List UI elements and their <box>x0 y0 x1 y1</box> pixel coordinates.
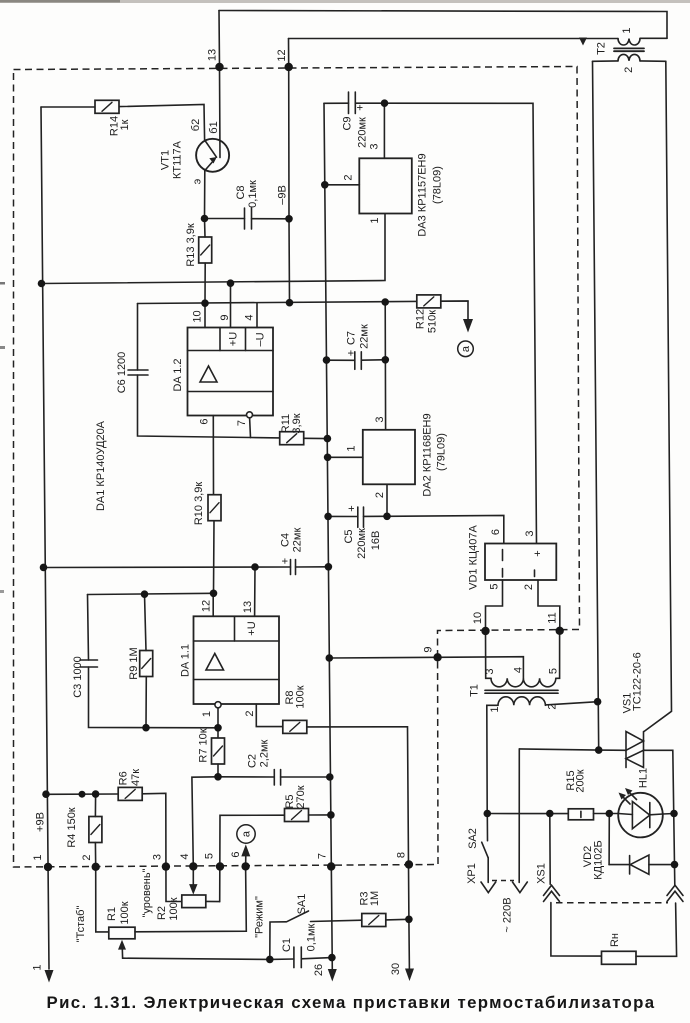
wire XS1 left contact riser <box>549 814 551 885</box>
common rail (long vertical) <box>324 103 332 957</box>
node C7 left <box>323 356 331 364</box>
wire C5 left lead <box>328 515 358 517</box>
svg-text:270к: 270к <box>295 785 307 808</box>
node R3 right <box>405 916 413 924</box>
node C7 right <box>382 356 390 364</box>
svg-text:9: 9 <box>423 646 435 652</box>
wire C3 bottom to DA1.1 pin1 bus <box>89 667 219 728</box>
node pin9 bus on common rail <box>326 654 334 662</box>
wire R8 right to pin 8 drop <box>307 727 409 920</box>
svg-text:DA3 КР1157ЕН9: DA3 КР1157ЕН9 <box>417 153 429 236</box>
svg-text:5: 5 <box>204 853 216 859</box>
svg-text:510к: 510к <box>427 310 439 333</box>
svg-text:+9В: +9В <box>35 812 47 832</box>
svg-text:КД102Б: КД102Б <box>593 840 605 879</box>
node pin 13 <box>215 63 223 71</box>
svg-text:+: + <box>346 505 358 511</box>
connector XP1 left pin <box>481 882 496 893</box>
LED HL1 circle <box>618 793 663 838</box>
potentiometer R1 body <box>109 927 135 939</box>
svg-text:R2: R2 <box>156 906 168 920</box>
node DA1.1 pin 12 / R10 <box>210 590 218 598</box>
svg-text:"уровень": "уровень" <box>141 868 153 917</box>
wire C6 bottom to R11 node <box>138 375 251 438</box>
capacitor C6 <box>128 369 148 371</box>
wire VD1 pin 2 to pin 11 <box>538 580 560 631</box>
svg-text:(79L09): (79L09) <box>436 433 448 471</box>
wire load loop right <box>636 903 677 956</box>
svg-text:R1: R1 <box>106 907 118 921</box>
wire T2 winding 2 left lead to mains rail <box>593 60 619 62</box>
wire R14 feed from left rail <box>41 106 95 108</box>
svg-text:"Режим": "Режим" <box>254 896 266 938</box>
svg-text:Рис. 1.31. Электрическая схема: Рис. 1.31. Электрическая схема приставки… <box>47 993 656 1012</box>
wire pin9 bus from common rail to T1 tap <box>329 657 523 679</box>
svg-text:100к: 100к <box>168 897 180 920</box>
op-amp DA1.2 body <box>188 328 274 416</box>
svg-text:3: 3 <box>369 143 381 149</box>
wire pin 11 to T1 winding end <box>556 631 560 679</box>
svg-text:1к: 1к <box>119 119 131 130</box>
svg-text:+U: +U <box>246 621 258 635</box>
svg-text:1: 1 <box>621 27 633 33</box>
svg-text:C4: C4 <box>280 533 292 547</box>
arrow to point a (top) <box>463 319 473 333</box>
svg-text:DA 1.1: DA 1.1 <box>180 644 192 677</box>
node C8 right on -9V rail <box>285 215 293 223</box>
wire R6 right to pin 3 drop <box>142 793 182 901</box>
svg-text:R4 150к: R4 150к <box>66 807 78 847</box>
svg-text:3: 3 <box>524 530 536 536</box>
wire R2 right lead riser to pin 5 <box>206 900 220 902</box>
node pin 8 <box>405 860 413 868</box>
node +9V bus left <box>38 280 46 288</box>
dashed enclosure border <box>14 67 580 868</box>
pin 1 exit arrow <box>45 970 54 983</box>
wire T2 winding 1 right lead <box>640 37 667 39</box>
right mains rail down to triac diagonal <box>644 61 672 731</box>
wire null/offset bus y302 <box>138 301 469 304</box>
wire DA2 pin 1 to common rail <box>327 456 362 458</box>
svg-text:1: 1 <box>346 445 358 451</box>
wire DA1.2 pin 10 <box>204 303 206 327</box>
connector XS1 left contact <box>544 885 560 895</box>
node pin 6 <box>241 862 249 870</box>
op-amp DA1.1 body <box>194 616 280 704</box>
node R9 bottom <box>142 724 150 732</box>
svg-text:R12: R12 <box>415 309 427 329</box>
svg-text:R13 3,9к: R13 3,9к <box>185 223 197 267</box>
svg-text:11: 11 <box>547 612 559 623</box>
node pin 10 <box>481 627 489 635</box>
svg-text:47к: 47к <box>130 769 142 786</box>
svg-text:2: 2 <box>374 492 386 498</box>
svg-text:+: + <box>532 550 544 556</box>
node DA3 pin 2 on common rail <box>321 181 329 189</box>
svg-text:2: 2 <box>81 854 93 860</box>
node R7 bottom / C2 <box>214 773 222 781</box>
wire pin 10 to T1 winding start <box>486 631 492 678</box>
wire DA1.1 pin 12 <box>212 593 214 616</box>
svg-text:22мк: 22мк <box>359 324 371 349</box>
wire VD1 pin 5 to pin 10 <box>486 580 503 631</box>
VD1 AC mark bottom <box>502 569 504 578</box>
node pin 7 <box>327 862 335 870</box>
svg-text:C5: C5 <box>343 529 355 543</box>
wire C6 top branch <box>137 304 139 371</box>
capacitor C3 <box>80 659 98 661</box>
svg-text:1: 1 <box>201 711 213 717</box>
wire DA3 pin 3 <box>383 103 385 158</box>
wire R4 bottom to R1 left <box>95 843 108 932</box>
node triac junction on mains rail <box>595 746 603 754</box>
wire lamp bus <box>487 813 568 815</box>
wire R7 top lead <box>217 728 219 744</box>
connector XS1 right contact <box>667 885 683 895</box>
svg-text:–U: –U <box>255 332 267 346</box>
resistor Rn (load) <box>602 951 637 964</box>
resistor R9 <box>140 651 153 677</box>
wire C9 right lead to DA3 pin 3 node <box>355 102 384 104</box>
svg-text:б2: б2 <box>190 119 202 131</box>
point a circle (bottom) <box>237 825 255 843</box>
svg-text:6: 6 <box>490 529 502 535</box>
wire DA1.2 pin 7 lead <box>249 418 252 438</box>
node DA2 input tap <box>381 298 389 306</box>
resistor R14 <box>95 100 119 113</box>
wire T2 winding 2 right lead to right mains rail <box>640 60 666 62</box>
wire triac to right rail <box>644 750 675 885</box>
svg-text:3: 3 <box>484 668 496 674</box>
wire DA3 output bus down to VD1 pin 3 <box>385 103 537 543</box>
node XS1 left riser <box>546 810 554 818</box>
node R1 wiper / C1 / SA1 <box>266 956 274 964</box>
svg-text:0,1мк: 0,1мк <box>247 180 259 208</box>
node R9 top <box>141 590 149 598</box>
transformer T1 core <box>485 690 558 693</box>
node pin 4 <box>189 862 197 870</box>
svg-text:C7: C7 <box>346 331 358 345</box>
transformer T2 winding 1 <box>618 39 640 46</box>
wire C1 left lead <box>270 958 294 960</box>
svg-text:7: 7 <box>317 853 329 859</box>
capacitor C7 <box>354 352 356 370</box>
wire C7 right lead <box>361 359 385 361</box>
wire R7 bottom lead <box>217 764 219 777</box>
svg-text:3: 3 <box>152 854 164 860</box>
svg-text:1: 1 <box>32 854 44 860</box>
svg-text:2: 2 <box>623 67 635 73</box>
voltage regulator DA2 body <box>363 430 415 485</box>
svg-text:ТС122-20-6: ТС122-20-6 <box>631 652 643 711</box>
svg-text:0,1мк: 0,1мк <box>306 923 318 951</box>
switch SA2 <box>486 814 488 841</box>
wire R5 branch from R2 right <box>220 815 285 901</box>
resistor R12 <box>417 295 441 308</box>
svg-text:~ 220В: ~ 220В <box>502 897 514 932</box>
wire R3 right lead <box>386 918 409 921</box>
node T1 pin 2 on mains rail <box>594 698 602 706</box>
svg-text:13: 13 <box>242 601 254 613</box>
wire DA1.1 pin12 bus <box>88 593 214 594</box>
wire DA2 pin 2 down <box>386 484 388 516</box>
svg-text:1: 1 <box>489 706 501 712</box>
svg-text:220мк: 220мк <box>357 117 369 148</box>
wire R1 wiper bus to SA1/C1 <box>123 958 270 959</box>
VD1 minus mark <box>534 570 536 577</box>
svg-text:8: 8 <box>396 852 408 858</box>
svg-text:22мк: 22мк <box>292 528 304 553</box>
svg-text:C8: C8 <box>235 185 247 199</box>
svg-text:3,9к: 3,9к <box>291 413 303 433</box>
wire DA1.2 pin 9 <box>230 283 232 327</box>
connector XS1 link dashes <box>556 902 668 904</box>
resistor R8 <box>283 720 307 733</box>
resistor R4 <box>89 817 102 843</box>
node +9V rail distribution <box>42 790 50 798</box>
resistor R15 <box>568 809 593 820</box>
svg-text:2: 2 <box>343 174 355 180</box>
svg-text:R9 1М: R9 1М <box>128 647 140 679</box>
node SA2 top <box>484 810 492 818</box>
svg-text:5: 5 <box>489 583 501 589</box>
wire C4 bus from left rail <box>44 566 291 569</box>
svg-text:2: 2 <box>547 703 559 709</box>
wire R10 bottom to DA1.1 pin 12 node <box>213 521 216 593</box>
resistor R10 <box>208 495 221 521</box>
wire VD1 bridge feed from DA2/C5 node <box>387 515 504 543</box>
diode bridge VD1 body <box>485 544 556 581</box>
wire T1 primary pin 2 to left mains rail <box>546 702 598 705</box>
LED HL1 emission arrows <box>622 796 631 805</box>
svg-text:XS1: XS1 <box>536 863 548 884</box>
wire DA1.2 pin 6 to R10 <box>212 416 214 495</box>
svg-text:DA2 КР1168ЕН9: DA2 КР1168ЕН9 <box>422 413 434 496</box>
arrow into R2 wiper <box>189 884 197 895</box>
node C2 right <box>326 773 334 781</box>
wire +9V bus to DA3 pin 1 <box>42 214 386 284</box>
svg-text:а: а <box>460 345 472 352</box>
svg-text:3: 3 <box>374 416 386 422</box>
svg-text:100к: 100к <box>295 685 307 708</box>
transistor VT1 emitter arrow <box>205 160 215 171</box>
node C4 right <box>325 563 333 571</box>
svg-text:Rн: Rн <box>609 933 621 947</box>
svg-text:10: 10 <box>192 310 204 322</box>
svg-text:C2: C2 <box>247 754 259 768</box>
left mains rail down to T1/triac junction <box>593 61 599 750</box>
svg-text:R7 10к: R7 10к <box>198 728 210 762</box>
svg-text:C9: C9 <box>342 116 354 130</box>
svg-text:4: 4 <box>513 667 525 673</box>
svg-text:"Тстаб": "Тстаб" <box>75 906 87 943</box>
wire C8 right lead to -9V rail <box>252 218 290 220</box>
svg-text:1: 1 <box>369 217 381 223</box>
node VD2 right on rail <box>671 861 679 869</box>
potentiometer R1 wiper arrow <box>118 940 126 950</box>
wire pin 12 vertical (-9V rail) <box>289 39 290 303</box>
svg-text:12: 12 <box>201 600 213 612</box>
svg-text:R6: R6 <box>118 771 130 785</box>
svg-text:2,2мк: 2,2мк <box>259 739 271 767</box>
svg-text:Т2: Т2 <box>596 42 608 55</box>
svg-text:Т1: Т1 <box>469 684 481 697</box>
wire C9 left lead <box>324 102 349 104</box>
node R13 / DA1.2 pin 10 <box>201 299 209 307</box>
T2 arrow mark <box>579 38 587 46</box>
node DA2 pin 1 <box>324 454 332 462</box>
svg-text:1М: 1М <box>369 891 381 906</box>
svg-text:КТ117А: КТ117А <box>172 140 184 179</box>
svg-text:+U: +U <box>228 332 240 346</box>
wire VT1 emitter down to C8 node <box>204 171 206 219</box>
wire C4 right lead <box>296 566 329 568</box>
node HL1 right on rail <box>670 810 678 818</box>
node pin 12 <box>285 63 293 71</box>
op-amp DA1.1 pin 1 output circle <box>215 702 221 708</box>
triac VS1 <box>626 732 644 751</box>
wire +9V distribution bus <box>46 793 118 795</box>
resistor R7 <box>212 738 225 764</box>
node pin 3 <box>162 862 170 870</box>
wire HL1 right to rail <box>663 813 674 816</box>
wire C8 left lead <box>205 218 245 220</box>
svg-text:5: 5 <box>548 668 560 674</box>
svg-text:4: 4 <box>179 853 191 859</box>
svg-text:2: 2 <box>523 584 535 590</box>
svg-text:DA 1.2: DA 1.2 <box>172 358 184 391</box>
capacitor C4 <box>290 560 292 575</box>
VD1 AC mark top <box>502 550 504 561</box>
svg-text:7: 7 <box>236 420 248 426</box>
svg-text:10: 10 <box>472 612 484 624</box>
svg-text:VD1 КЦ407А: VD1 КЦ407А <box>468 524 480 589</box>
op-amp DA1.1 triangle <box>206 654 224 671</box>
svg-text:С3 1000: С3 1000 <box>72 656 84 698</box>
op-amp DA1.2 triangle <box>200 366 217 382</box>
wire C3 top branch <box>88 595 89 661</box>
LED HL1 diode <box>632 802 649 829</box>
resistor R6 <box>118 787 142 800</box>
svg-text:6: 6 <box>199 418 211 424</box>
wire DA1.1 pin 2 to R8 <box>256 704 283 727</box>
wire R5 right lead <box>309 814 331 816</box>
svg-text:ХР1: ХР1 <box>466 863 478 884</box>
wire R7 node to R2 wiper drop <box>192 777 218 888</box>
svg-text:С1: С1 <box>281 938 293 952</box>
resistor R13 <box>199 237 212 263</box>
point a circle (top) <box>458 341 474 357</box>
capacitor C8 <box>244 208 246 229</box>
svg-text:–9В: –9В <box>277 185 289 205</box>
svg-text:6: 6 <box>230 851 242 857</box>
wire R1 right to pin 6 riser <box>135 855 246 932</box>
wire load loop left <box>551 903 602 957</box>
svg-text:220мк: 220мк <box>356 528 368 559</box>
transformer T2 winding 2 <box>618 54 640 61</box>
svg-text:э: э <box>192 178 204 184</box>
wire C5 right lead <box>364 515 388 517</box>
wire C2 left lead <box>218 776 274 778</box>
svg-text:100к: 100к <box>119 901 131 924</box>
node R5 right <box>327 811 335 819</box>
wire top rail from pin 13 to T2 winding 1 <box>219 11 667 39</box>
svg-text:(78L09): (78L09) <box>432 166 444 204</box>
node DA3 pin 3 / C9 <box>381 99 389 107</box>
svg-text:VT1: VT1 <box>160 150 172 170</box>
pin 26 exit arrow <box>328 969 337 982</box>
node R11 right <box>324 435 332 443</box>
node pin 1 <box>44 863 52 871</box>
resistor R5 <box>285 809 309 822</box>
svg-text:4: 4 <box>244 314 256 320</box>
node VD2 left <box>606 810 614 818</box>
wire pin 13 vertical to VT1 base b1 <box>219 11 220 158</box>
svg-text:2: 2 <box>244 710 256 716</box>
node pin 9 <box>433 653 441 661</box>
node pin 5 <box>216 862 224 870</box>
wire pin 12 feed to T2 winding 1 <box>289 38 619 40</box>
voltage regulator DA3 body <box>359 158 412 213</box>
wire DA3 pin 2 to common rail <box>325 184 360 186</box>
switch SA1 <box>270 922 286 960</box>
node VT1 emitter / C8 / R13 <box>201 215 209 223</box>
left supply rail <box>41 107 49 969</box>
svg-text:13: 13 <box>207 49 219 61</box>
capacitor C2 <box>273 770 275 786</box>
transformer T2 core <box>614 48 644 51</box>
node DA1.2 pin 9 tap <box>227 279 235 287</box>
node DA1.1 pin 13 tap <box>251 563 259 571</box>
wire R11 right lead <box>304 437 328 439</box>
svg-text:б1: б1 <box>208 121 220 133</box>
resistor R3 <box>362 914 386 927</box>
node C1 right on common rail <box>328 954 336 962</box>
svg-text:26: 26 <box>313 964 325 976</box>
node R4 top <box>92 790 100 798</box>
transformer T1 primary winding (1-2) <box>498 697 545 706</box>
wire C2 right lead <box>281 776 330 778</box>
svg-text:С6 1200: С6 1200 <box>116 352 128 394</box>
svg-text:30: 30 <box>390 963 402 975</box>
wire R12 right to arrow <box>441 301 468 319</box>
capacitor C5 <box>357 507 359 527</box>
svg-text:12: 12 <box>276 49 288 61</box>
wire R11 left lead <box>251 437 280 439</box>
svg-text:SA1: SA1 <box>296 894 308 915</box>
node C5 left <box>324 513 332 521</box>
wire R14 to VT1 base b2 <box>119 105 217 158</box>
wire R13 leads <box>204 219 207 238</box>
wire XP1 right pin riser to triac junction <box>519 749 626 750</box>
wire VD2 branch left drop <box>608 814 610 865</box>
svg-text:1: 1 <box>32 964 44 970</box>
wire T1 primary pin 1 down to SA2 node <box>487 705 498 813</box>
transistor VT1 circle <box>196 139 229 172</box>
wire C7 left lead <box>327 359 355 361</box>
wire DA2 input branch <box>384 302 386 430</box>
capacitor C9 <box>348 92 350 114</box>
node C4 bus left rail <box>40 564 48 572</box>
pin 30 exit arrow <box>405 969 414 982</box>
node -9V rail end <box>286 299 294 307</box>
node pin 2 <box>92 863 100 871</box>
svg-text:DA1 КР140УД20А: DA1 КР140УД20А <box>95 420 107 511</box>
svg-text:+: + <box>355 104 367 110</box>
wire R15 right lead <box>594 813 619 815</box>
svg-text:R10 3,9к: R10 3,9к <box>193 482 205 526</box>
op-amp DA1.2 pin 7 output circle <box>247 412 253 418</box>
